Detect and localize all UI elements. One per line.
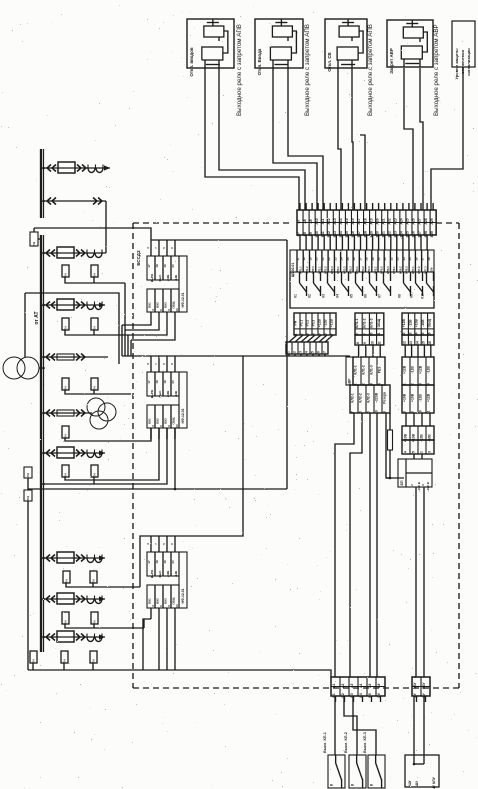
feeder bay 9 end arrow <box>99 596 105 601</box>
svg-text:сигнализации: сигнализации <box>466 48 471 76</box>
wire taps row2 collector <box>65 330 128 335</box>
unit НФ-12.01 No2 designator cell <box>179 372 187 428</box>
svg-text:А12: А12 <box>327 218 331 224</box>
svg-text:13: 13 <box>409 341 413 345</box>
svg-text:А27: А27 <box>418 218 422 224</box>
wire NF2 pin4 to return line <box>174 428 176 489</box>
feeder bay 1 chevrons right <box>77 165 81 172</box>
svg-text:ВХ1: ВХ1 <box>148 598 152 604</box>
feeder bay 1 breaker <box>58 162 75 173</box>
feeder bay 9 breaker <box>57 593 74 604</box>
svg-text:Выкл. КЛ-2: Выкл. КЛ-2 <box>344 732 348 753</box>
svg-text:КЛ3.2: КЛ3.2 <box>342 266 346 274</box>
unit НФ-12.01 No2 bottom pin wires <box>150 428 152 439</box>
svg-text:11: 11 <box>378 341 382 345</box>
output relay box 'Запрет АВР' <box>387 20 433 67</box>
feeder bay 1 isolator chevrons left <box>47 165 51 172</box>
wires taps row8 to bottom collector <box>32 663 34 670</box>
svg-text:К6: К6 <box>364 294 368 298</box>
external number row under group B <box>355 335 384 345</box>
dashed cabinet frame БССДЗ left edge <box>132 223 134 688</box>
svg-text:БП: БП <box>400 480 404 485</box>
svg-text:ТН: ТН <box>91 660 95 664</box>
svg-text:ВХ3: ВХ3 <box>164 598 168 604</box>
svg-text:28: 28 <box>365 257 369 261</box>
svg-text:17: 17 <box>147 380 151 384</box>
svg-text:К5: К5 <box>350 294 354 298</box>
svg-text:ШУ КЛУ: ШУ КЛУ <box>432 776 436 789</box>
svg-text:В29: В29 <box>430 231 434 237</box>
svg-text:+12В: +12В <box>330 318 334 327</box>
bay 6 transformer tap <box>62 426 69 438</box>
feeder bay 9 line <box>44 598 105 600</box>
svg-text:ОБЩ: ОБЩ <box>377 318 381 327</box>
breaker auxiliary switch КЛ-2 <box>349 755 366 788</box>
svg-text:А25: А25 <box>406 218 410 224</box>
auxiliary block Б2 cell row upper <box>402 426 434 440</box>
feeder bay 3 line <box>44 252 106 254</box>
svg-text:+12В: +12В <box>318 318 322 327</box>
svg-text:ВЫП1: ВЫП1 <box>150 569 154 578</box>
wire bay2 to bay3 junction <box>105 201 107 253</box>
feeder bay 8 breaker <box>57 552 74 563</box>
svg-text:38: 38 <box>427 257 431 261</box>
feeder bay 4 breaker <box>57 299 74 310</box>
svg-text:34: 34 <box>402 257 406 261</box>
svg-text:КЛ1-1: КЛ1-1 <box>355 318 359 327</box>
output relay box 'Откл. Ввода' with relays <box>255 19 303 68</box>
svg-text:А7: А7 <box>297 219 301 223</box>
svg-text:+10В: +10В <box>403 393 407 402</box>
svg-text:4: 4 <box>403 451 407 453</box>
svg-text:ТН: ТН <box>92 387 96 391</box>
unit НФ-12.01 No3 bottom pin wires <box>150 608 152 619</box>
svg-text:2: 2 <box>300 333 304 335</box>
svg-text:4: 4 <box>312 333 316 335</box>
wire tap row4 collector to NF2 pin1 <box>65 428 151 441</box>
wire strip X2:2 to breaker KL-2 <box>344 696 357 755</box>
feeder bay 4 current transformer <box>87 305 94 310</box>
svg-text:-12В: -12В <box>419 394 423 402</box>
wire box1 pin a to strip X1:7 <box>205 68 299 210</box>
feeder bay 1 current transformer <box>88 168 95 173</box>
svg-text:К8: К8 <box>398 294 402 298</box>
svg-text:+12В: +12В <box>427 393 431 402</box>
unit БВР output cell row <box>350 385 390 413</box>
svg-text:30: 30 <box>377 257 381 261</box>
bay 8 transformer taps <box>63 571 70 583</box>
svg-text:Откл. СВ: Откл. СВ <box>327 52 332 71</box>
svg-text:-12В: -12В <box>411 366 415 374</box>
three-winding transformer T2 winding 1 <box>87 398 105 416</box>
svg-text:18: 18 <box>155 264 159 268</box>
svg-text:1: 1 <box>419 451 423 453</box>
power unit БП cells <box>406 459 432 487</box>
svg-text:33: 33 <box>396 257 400 261</box>
svg-text:+10В: +10В <box>415 318 419 327</box>
svg-text:ТН: ТН <box>63 621 67 625</box>
svg-text:ТН: ТН <box>92 474 96 478</box>
svg-text:-10В: -10В <box>421 319 425 327</box>
svg-text:Откл. вводов: Откл. вводов <box>189 47 194 76</box>
collector row7 riser <box>143 619 145 628</box>
svg-text:БССДЗ: БССДЗ <box>136 250 141 266</box>
svg-text:ВХ2: ВХ2 <box>156 598 160 604</box>
svg-text:-12В: -12В <box>408 319 412 327</box>
svg-text:Выходное реле с запретом АПВ: Выходное реле с запретом АПВ <box>367 24 374 116</box>
svg-text:19: 19 <box>309 257 313 261</box>
unit CB output terminal group A <box>294 313 336 335</box>
terminal strip X2 (A1..B6) <box>331 677 385 696</box>
svg-text:1ТН: 1ТН <box>26 473 30 478</box>
svg-text:Резерв: Резерв <box>383 392 387 404</box>
junction dots busbar 1 <box>42 167 45 170</box>
wire busbar to return b <box>44 483 94 485</box>
voltage transformer tap box 1 <box>30 232 38 246</box>
feeder bay 8 line <box>44 557 105 559</box>
wire resistor top from block B1 <box>389 413 391 418</box>
wire NF1 out pin3 to left bundle <box>128 323 167 335</box>
unit НФ-12.01 No2 output cell row <box>147 405 179 428</box>
wire strip X2:3 to breaker KL-3 <box>353 696 376 755</box>
svg-text:А28: А28 <box>424 218 428 224</box>
svg-text:20: 20 <box>171 264 175 268</box>
external number row under group C <box>402 335 434 345</box>
wire strip X2:1 to breaker KL-1 <box>334 696 336 755</box>
svg-text:Выходное реле с запретом АПВ: Выходное реле с запретом АПВ <box>236 24 243 116</box>
unit НФ-12.01 No1 top pin wires <box>150 240 152 256</box>
long interconnection wire y356 bundle to BVR <box>122 355 350 357</box>
unit НФ-12.01 No1 bottom pin wires <box>150 312 152 323</box>
svg-text:19: 19 <box>163 264 167 268</box>
svg-text:31: 31 <box>383 257 387 261</box>
svg-text:20: 20 <box>171 380 175 384</box>
svg-text:ТН: ТН <box>31 660 35 664</box>
feeder bay 1 end arrow <box>104 165 110 170</box>
svg-text:ТН: ТН <box>64 580 68 584</box>
voltage transformer tap box 2 <box>24 467 32 478</box>
svg-text:КЛ6.1: КЛ6.1 <box>392 266 396 274</box>
wire taps row7 collector <box>65 624 144 628</box>
svg-text:9: 9 <box>411 411 415 413</box>
svg-text:ВХ2: ВХ2 <box>156 302 160 308</box>
wire power unit corner link <box>386 477 390 479</box>
svg-text:ВХ3: ВХ3 <box>164 302 168 308</box>
svg-text:А9: А9 <box>309 219 313 223</box>
svg-text:2ТН: 2ТН <box>26 496 30 501</box>
svg-text:26: 26 <box>352 257 356 261</box>
busbar section 2 <box>40 235 42 652</box>
svg-text:А17: А17 <box>357 218 361 224</box>
auxiliary block Б1 lower cell row <box>402 385 434 413</box>
svg-text:14: 14 <box>415 341 419 345</box>
svg-text:РС3: РС3 <box>312 320 316 327</box>
unit НФ-12.01 No3 input cell row <box>147 552 179 576</box>
svg-text:ВЫС: ВЫС <box>158 275 162 282</box>
unit НФ-12.01 No3 designator cell <box>179 552 187 608</box>
long return wire y489 to node bus <box>28 488 287 490</box>
svg-text:Запрет АВР: Запрет АВР <box>389 48 394 74</box>
feeder bay 7 line <box>44 452 105 454</box>
svg-text:1: 1 <box>294 333 298 335</box>
vertical node bus wire x287 <box>286 240 288 489</box>
feeder bay 1 line <box>44 167 110 169</box>
dashed cabinet frame top-right link <box>436 222 459 224</box>
svg-text:К10: К10 <box>421 293 425 299</box>
svg-text:7: 7 <box>322 351 326 353</box>
unit НФ-12.01 No1 input cell row <box>147 256 179 280</box>
svg-text:2: 2 <box>292 351 296 353</box>
junction dot resistor to power wire <box>389 477 392 480</box>
feeder bay 7 end arrow <box>99 450 105 455</box>
three-winding transformer T2 winding 3 <box>90 411 108 429</box>
three-winding transformer T2 winding 2 <box>98 403 116 421</box>
svg-text:-12В: -12В <box>427 366 431 374</box>
svg-text:НФ-12.01: НФ-12.01 <box>181 408 185 423</box>
svg-text:+12В: +12В <box>419 365 423 374</box>
feeder bay 3 current transformer <box>87 253 94 258</box>
svg-text:А23: А23 <box>394 218 398 224</box>
annunciator box 'Уровни защиты отключения сигнализации' <box>452 21 475 67</box>
svg-text:ТН: ТН <box>62 660 66 664</box>
svg-text:КЛ1-3: КЛ1-3 <box>370 318 374 327</box>
output relay box 'Откл. вводов' with relays K1,K2 <box>187 19 234 68</box>
control cabinet box ШУ КЛУ <box>405 755 439 787</box>
svg-text:36: 36 <box>414 257 418 261</box>
wire taps row6 collector <box>66 583 140 587</box>
svg-text:А13: А13 <box>333 218 337 224</box>
wires strip X3 to control cabinet <box>413 696 415 764</box>
svg-text:К1: К1 <box>294 294 298 298</box>
svg-text:КЛ2.3: КЛ2.3 <box>330 266 334 274</box>
svg-text:+12В: +12В <box>166 391 170 398</box>
bay 3 transformer taps <box>62 265 69 277</box>
svg-text:КЛ7.1: КЛ7.1 <box>411 266 415 274</box>
wires strip X1 to unit CB top pins <box>299 235 301 250</box>
bay 10 transformer taps <box>30 651 37 663</box>
wire from left to NF via y293 <box>25 293 119 364</box>
resistor R1 <box>389 418 391 430</box>
wire taps row5 to NF2 return b <box>94 428 167 484</box>
svg-text:ВХ1: ВХ1 <box>148 418 152 424</box>
svg-text:Откл. Ввода: Откл. Ввода <box>257 48 262 75</box>
svg-text:А8: А8 <box>303 219 307 223</box>
svg-text:29: 29 <box>371 257 375 261</box>
svg-text:6: 6 <box>316 351 320 353</box>
feeder bay 2 chevrons right <box>93 198 97 205</box>
svg-text:А2: А2 <box>341 683 345 687</box>
unit НФ-12.01 No3 top pin wires <box>150 536 152 552</box>
svg-text:-12В: -12В <box>174 571 178 577</box>
wire box2 pin b to strip X1:11 <box>288 68 323 210</box>
wire taps row5 to NF2 return a <box>65 428 159 480</box>
svg-text:ОБЩ: ОБЩ <box>427 318 431 327</box>
svg-text:КЛ1-2: КЛ1-2 <box>362 365 366 374</box>
breaker auxiliary switch КЛ-3 <box>368 755 385 788</box>
left bundle vertical 2 <box>124 330 126 356</box>
dashed cabinet frame top edge <box>133 222 292 224</box>
unit НФ-12.01 No1 designator cell <box>179 256 187 312</box>
feeder bay 9 current transformer <box>87 599 94 604</box>
wires NF3 outputs to bottom collector <box>158 619 160 670</box>
svg-text:+10В: +10В <box>403 433 407 442</box>
svg-text:~220В: ~220В <box>375 392 379 403</box>
svg-text:21: 21 <box>321 257 325 261</box>
wire BVR out2 to strip X2:2 <box>350 413 362 677</box>
svg-text:+12В: +12В <box>166 275 170 282</box>
feeder bay 10 end arrow <box>99 634 105 639</box>
svg-text:20: 20 <box>171 560 175 564</box>
svg-text:4: 4 <box>304 351 308 353</box>
collector row1 into bundle <box>124 283 126 330</box>
svg-text:Выкл. КЛ-3: Выкл. КЛ-3 <box>363 732 367 753</box>
svg-text:22: 22 <box>327 257 331 261</box>
svg-text:А24: А24 <box>400 218 404 224</box>
svg-text:Выходное реле с запретом АВР: Выходное реле с запретом АВР <box>433 24 440 116</box>
svg-text:6: 6 <box>359 411 363 413</box>
bay 7 transformer taps <box>62 465 69 477</box>
bay 5 transformer taps <box>62 378 69 390</box>
svg-text:27: 27 <box>358 257 362 261</box>
svg-text:8: 8 <box>403 411 407 413</box>
svg-text:ВХ2: ВХ2 <box>156 418 160 424</box>
svg-text:5: 5 <box>411 451 415 453</box>
svg-text:-ШУ: -ШУ <box>415 780 419 787</box>
wire БП to strip X3 pin b <box>423 487 425 677</box>
svg-text:24: 24 <box>340 257 344 261</box>
busbar section 1 <box>40 149 42 218</box>
svg-text:13: 13 <box>175 308 179 312</box>
svg-text:10: 10 <box>370 341 374 345</box>
svg-text:А19: А19 <box>369 218 373 224</box>
svg-text:17: 17 <box>147 264 151 268</box>
svg-text:18: 18 <box>302 257 306 261</box>
svg-text:А22: А22 <box>387 218 391 224</box>
svg-text:17: 17 <box>296 257 300 261</box>
relay contacts K1..K10 of unit CB <box>299 272 301 283</box>
unit CB output terminal group B <box>355 313 384 335</box>
svg-text:КЛ8: КЛ8 <box>430 267 434 273</box>
svg-text:18: 18 <box>155 380 159 384</box>
svg-text:5: 5 <box>318 333 322 335</box>
svg-text:КЛ2-1: КЛ2-1 <box>351 393 355 402</box>
svg-text:7: 7 <box>330 333 334 335</box>
branch wire down to NF3 header <box>151 356 243 536</box>
svg-text:3: 3 <box>298 351 302 353</box>
svg-text:К7: К7 <box>378 294 382 298</box>
svg-text:ВЗУ: ВЗУ <box>422 682 426 689</box>
svg-text:КЛ3.1: КЛ3.1 <box>336 266 340 274</box>
wire from voltage transformer line to NF1 pins <box>34 228 151 240</box>
feeder bay 4 chevrons right <box>76 302 80 309</box>
feeder bay 7 breaker <box>57 447 74 458</box>
feeder bay 2 chevrons left <box>47 198 51 205</box>
unit НФ-12.01 No2 top pin wires <box>150 356 152 372</box>
left bundle vertical 1 <box>121 325 123 356</box>
wire box5 to strip X1:22 <box>431 67 463 210</box>
wire BVR out5 to power unit <box>386 413 404 478</box>
links block Б1 to block Б2 <box>405 413 407 426</box>
svg-text:К9: К9 <box>410 294 414 298</box>
feeder bay 3 chevrons right <box>76 250 80 257</box>
svg-text:А6: А6 <box>377 683 381 687</box>
svg-text:19: 19 <box>163 380 167 384</box>
wire box3 pin b2 to strip X1:17 <box>360 135 365 210</box>
svg-text:35: 35 <box>408 257 412 261</box>
svg-text:А10: А10 <box>315 218 319 224</box>
svg-text:ОБЩ: ОБЩ <box>172 597 176 604</box>
svg-text:А21: А21 <box>381 218 385 224</box>
unit НФ-12.01 No2 input cell row <box>147 372 179 396</box>
svg-text:ТН: ТН <box>92 274 96 278</box>
svg-text:ТН: ТН <box>63 327 67 331</box>
dashed cabinet frame bottom edge <box>133 687 459 689</box>
svg-text:ВХ1: ВХ1 <box>148 302 152 308</box>
svg-text:~220 В: ~220 В <box>426 481 430 492</box>
svg-text:13: 13 <box>175 604 179 608</box>
wire taps row3 collector <box>65 390 131 394</box>
wire BVR out1 to strip X2:1 <box>335 413 354 677</box>
svg-text:К2: К2 <box>308 294 312 298</box>
junction dots busbar 2 <box>42 252 45 255</box>
svg-text:+12В: +12В <box>166 571 170 578</box>
wire BVR out4 to strip X2:6 <box>376 413 378 677</box>
svg-text:А1: А1 <box>332 683 336 687</box>
svg-text:НФ-12.01: НФ-12.01 <box>181 588 185 603</box>
pin ticks below strip X2 <box>335 696 337 702</box>
svg-text:ЦБ-02.01: ЦБ-02.01 <box>291 263 295 278</box>
svg-text:17: 17 <box>147 560 151 564</box>
svg-text:ВЫС: ВЫС <box>158 571 162 578</box>
wire БП to strip X3 pin a <box>415 487 417 677</box>
dashed cabinet frame right edge <box>458 223 460 688</box>
svg-text:ОБЩ: ОБЩ <box>172 417 176 424</box>
svg-text:КЛ2-2: КЛ2-2 <box>359 393 363 402</box>
output relay box 'Откл. СВ' <box>325 19 367 68</box>
feeder bay 3 breaker <box>57 247 74 258</box>
svg-text:Уровни защиты: Уровни защиты <box>454 48 459 80</box>
feeder bay 8 current transformer <box>87 558 94 563</box>
svg-text:8: 8 <box>356 342 360 344</box>
terminal strip X1 (A7..B29) <box>297 210 436 235</box>
terminal strip X3 (АЗУ ВЗУ) <box>412 677 430 696</box>
left bundle vertical 4 <box>130 340 132 356</box>
bottom collector wire to strip X2 <box>28 670 331 677</box>
svg-text:6: 6 <box>324 333 328 335</box>
svg-text:19: 19 <box>163 560 167 564</box>
svg-text:18: 18 <box>155 560 159 564</box>
links group B down to BVR pins <box>358 345 360 357</box>
svg-text:КЛ1-3: КЛ1-3 <box>370 365 374 374</box>
feeder bay 6 line disconnector <box>44 412 92 414</box>
feeder bay 10 line <box>44 636 105 638</box>
svg-text:ТН: ТН <box>32 242 36 246</box>
wire tap box3 down to bottom collector <box>27 501 29 670</box>
svg-text:-12В: -12В <box>324 319 328 327</box>
unit БВР input cell row <box>353 357 385 385</box>
svg-text:20: 20 <box>315 257 319 261</box>
svg-text:9: 9 <box>363 342 367 344</box>
svg-text:РЕЗ: РЕЗ <box>378 367 382 374</box>
power unit БП designator <box>398 459 406 487</box>
svg-text:ТН: ТН <box>92 327 96 331</box>
junction dot NF2 pin4 on return line <box>174 488 177 491</box>
svg-text:7: 7 <box>351 411 355 413</box>
svg-text:Выходное реле с запретом АПВ: Выходное реле с запретом АПВ <box>304 24 311 116</box>
svg-text:РС1: РС1 <box>300 320 304 327</box>
station transformer T1 winding 2 <box>17 357 39 379</box>
svg-text:12: 12 <box>403 341 407 345</box>
